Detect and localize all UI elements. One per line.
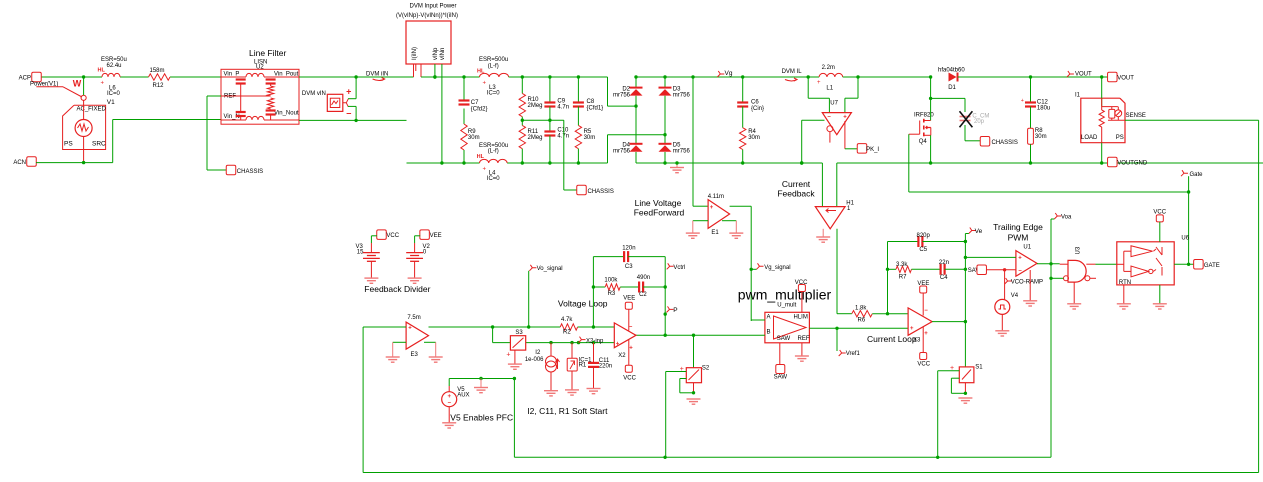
- svg-text:CHASSIS: CHASSIS: [237, 169, 263, 175]
- svg-text:Vg: Vg: [725, 70, 733, 77]
- svg-text:mr756: mr756: [673, 149, 691, 155]
- svg-text:{Cfd1}: {Cfd1}: [587, 105, 604, 111]
- svg-text:C6: C6: [751, 100, 759, 106]
- svg-text:1e-006: 1e-006: [525, 357, 544, 363]
- svg-text:vINp: vINp: [433, 47, 439, 60]
- svg-text:IC=0: IC=0: [107, 91, 121, 97]
- svg-text:VCC: VCC: [917, 362, 930, 368]
- svg-text:+: +: [710, 205, 714, 211]
- svg-text:+: +: [616, 342, 620, 348]
- svg-text:SAW: SAW: [777, 336, 791, 342]
- svg-text:30m: 30m: [584, 135, 596, 141]
- svg-text:(L-f): (L-f): [488, 149, 499, 155]
- svg-text:HL: HL: [477, 69, 485, 75]
- svg-text:C2: C2: [639, 292, 647, 298]
- svg-text:DVM Input Power: DVM Input Power: [409, 4, 456, 10]
- svg-text:I2, C11, R1 Soft Start: I2, C11, R1 Soft Start: [527, 406, 608, 416]
- svg-text:4.11m: 4.11m: [708, 194, 724, 200]
- svg-text:+: +: [101, 81, 105, 87]
- svg-text:ACN: ACN: [13, 160, 26, 166]
- svg-text:CHASSIS: CHASSIS: [992, 140, 1018, 146]
- svg-text:IC=0: IC=0: [487, 91, 501, 97]
- svg-text:4.7n: 4.7n: [557, 105, 569, 111]
- svg-text:+: +: [924, 331, 928, 337]
- svg-text:ESR=500u: ESR=500u: [479, 57, 508, 63]
- svg-text:220n: 220n: [599, 364, 612, 370]
- svg-text:2Meg: 2Meg: [528, 103, 543, 109]
- svg-text:E1: E1: [711, 230, 719, 236]
- svg-text:V4: V4: [1011, 293, 1019, 299]
- svg-text:mr756: mr756: [613, 92, 631, 98]
- svg-text:R3: R3: [608, 291, 616, 297]
- svg-text:AUX: AUX: [457, 393, 469, 399]
- svg-text:(L-f): (L-f): [488, 63, 499, 69]
- svg-text:{Cfd2}: {Cfd2}: [471, 106, 488, 112]
- svg-text:C3: C3: [625, 264, 633, 270]
- svg-text:−: −: [827, 115, 831, 121]
- svg-text:P: P: [673, 307, 677, 314]
- svg-text:S1: S1: [975, 365, 983, 371]
- svg-text:(V(vINp)-V(vINn))*I(iIN): (V(vINp)-V(vINn))*I(iIN): [396, 13, 458, 19]
- svg-text:62.4u: 62.4u: [107, 63, 122, 69]
- svg-text:SAW: SAW: [774, 375, 788, 381]
- svg-text:+: +: [910, 326, 914, 332]
- svg-text:820p: 820p: [917, 233, 931, 239]
- svg-text:U1: U1: [1023, 245, 1031, 251]
- svg-text:100k: 100k: [604, 278, 618, 284]
- svg-text:2.2m: 2.2m: [822, 65, 835, 71]
- svg-text:C4: C4: [940, 275, 948, 281]
- svg-text:VCC: VCC: [386, 233, 399, 239]
- svg-text:Line Voltage: Line Voltage: [635, 198, 682, 208]
- svg-text:PS: PS: [1116, 135, 1124, 141]
- svg-text:DVM iIN: DVM iIN: [366, 71, 388, 77]
- svg-text:+: +: [483, 81, 487, 87]
- svg-text:0: 0: [423, 250, 427, 256]
- svg-text:X2-inp: X2-inp: [586, 339, 604, 345]
- svg-text:U6: U6: [1181, 236, 1189, 242]
- svg-text:CHASSIS: CHASSIS: [588, 189, 614, 195]
- svg-text:Vctrl: Vctrl: [673, 265, 685, 271]
- svg-text:X3: X3: [913, 338, 921, 344]
- svg-text:GATE: GATE: [1204, 263, 1220, 269]
- svg-text:D1: D1: [948, 85, 956, 91]
- svg-text:mr756: mr756: [613, 149, 631, 155]
- svg-text:−: −: [1018, 269, 1022, 275]
- svg-text:Vin_Nout: Vin_Nout: [274, 111, 299, 117]
- svg-text:REF: REF: [798, 336, 810, 342]
- svg-text:AC_FIXED: AC_FIXED: [77, 107, 107, 113]
- svg-text:C5: C5: [919, 247, 927, 253]
- svg-text:+: +: [447, 394, 451, 400]
- svg-text:C7: C7: [471, 100, 479, 106]
- svg-text:−: −: [447, 401, 451, 407]
- svg-text:VCC: VCC: [623, 376, 636, 382]
- svg-text:S3: S3: [515, 330, 523, 336]
- svg-text:4.7n: 4.7n: [557, 134, 569, 140]
- svg-text:Ve: Ve: [975, 228, 983, 235]
- svg-text:hfa04tb60: hfa04tb60: [938, 68, 965, 74]
- svg-text:Current: Current: [782, 179, 811, 189]
- svg-text:I(iIN): I(iIN): [412, 47, 418, 60]
- svg-text:S2: S2: [702, 366, 710, 372]
- svg-text:R12: R12: [153, 83, 165, 89]
- svg-text:180u: 180u: [1037, 105, 1050, 111]
- svg-text:+: +: [629, 346, 633, 352]
- svg-text:vINn: vINn: [440, 48, 446, 60]
- svg-text:X2: X2: [618, 353, 626, 359]
- svg-text:W: W: [73, 79, 82, 89]
- svg-text:+: +: [346, 87, 351, 97]
- svg-text:−: −: [924, 308, 928, 314]
- svg-text:Current Loop: Current Loop: [867, 334, 917, 344]
- svg-text:1.8k: 1.8k: [855, 306, 867, 312]
- svg-text:B: B: [767, 330, 771, 336]
- svg-text:FeedForward: FeedForward: [634, 208, 685, 218]
- svg-text:mr756: mr756: [673, 92, 691, 98]
- svg-text:U3: U3: [1076, 246, 1082, 254]
- svg-text:V5 Enables PFC: V5 Enables PFC: [450, 413, 513, 423]
- svg-text:R1: R1: [579, 363, 587, 369]
- svg-text:A: A: [767, 315, 771, 321]
- svg-text:IRF820: IRF820: [914, 113, 934, 119]
- svg-text:{Cin}: {Cin}: [751, 106, 764, 112]
- svg-text:DVM vIN: DVM vIN: [302, 91, 326, 97]
- svg-text:VOUTGND: VOUTGND: [1117, 161, 1148, 167]
- svg-text:+: +: [506, 352, 510, 359]
- svg-text:Line Filter: Line Filter: [249, 48, 286, 58]
- svg-text:pwm_multiplier: pwm_multiplier: [738, 287, 832, 303]
- svg-text:SRC: SRC: [92, 141, 106, 148]
- svg-text:30m: 30m: [468, 135, 480, 141]
- svg-text:PK_I: PK_I: [866, 147, 879, 153]
- svg-text:VCO-RAMP: VCO-RAMP: [1011, 280, 1043, 286]
- svg-text:7.5m: 7.5m: [407, 315, 420, 321]
- svg-text:158m: 158m: [150, 68, 165, 74]
- svg-text:22n: 22n: [939, 260, 949, 266]
- svg-text:+: +: [1018, 256, 1022, 262]
- svg-text:VEE: VEE: [623, 296, 635, 302]
- svg-text:SENSE: SENSE: [1126, 113, 1146, 119]
- svg-text:Trailing Edge: Trailing Edge: [993, 222, 1043, 232]
- svg-text:120n: 120n: [622, 246, 635, 252]
- svg-text:+: +: [817, 80, 821, 86]
- svg-text:Voltage Loop: Voltage Loop: [558, 299, 608, 309]
- svg-text:R6: R6: [858, 318, 866, 324]
- svg-text:L1: L1: [826, 86, 833, 92]
- svg-text:E3: E3: [411, 352, 419, 358]
- svg-text:R7: R7: [899, 275, 907, 281]
- svg-text:4.7k: 4.7k: [561, 317, 573, 323]
- svg-text:VOUT: VOUT: [1075, 72, 1092, 78]
- svg-text:3.3k: 3.3k: [896, 262, 908, 268]
- svg-text:U7: U7: [830, 100, 838, 106]
- svg-text:Feedback: Feedback: [777, 189, 815, 199]
- svg-text:Vo_signal: Vo_signal: [537, 266, 563, 272]
- svg-text:IC=0: IC=0: [487, 176, 501, 182]
- svg-text:HL: HL: [477, 154, 485, 160]
- svg-text:−: −: [346, 109, 351, 119]
- svg-text:I1: I1: [1075, 93, 1081, 99]
- svg-text:U_mult: U_mult: [777, 303, 796, 309]
- svg-text:VOUT: VOUT: [1117, 76, 1134, 82]
- svg-text:R2: R2: [563, 330, 571, 336]
- svg-text:30m: 30m: [1035, 134, 1047, 140]
- svg-text:HL: HL: [98, 68, 106, 74]
- svg-text:Vg_signal: Vg_signal: [764, 265, 790, 271]
- svg-text:+: +: [843, 115, 847, 121]
- svg-text:2Meg: 2Meg: [528, 135, 543, 141]
- svg-text:Voa: Voa: [1061, 215, 1072, 221]
- svg-text:C8: C8: [587, 99, 595, 105]
- svg-text:490n: 490n: [637, 275, 650, 281]
- svg-text:+: +: [1021, 98, 1024, 104]
- svg-text:Gate: Gate: [1190, 172, 1204, 178]
- svg-text:RTN: RTN: [1119, 280, 1131, 286]
- svg-text:PWM: PWM: [1008, 233, 1029, 243]
- svg-text:I2: I2: [535, 350, 541, 356]
- svg-text:1: 1: [847, 206, 851, 212]
- svg-text:+: +: [408, 326, 412, 332]
- svg-text:30m: 30m: [748, 135, 760, 141]
- svg-text:Feedback Divider: Feedback Divider: [364, 284, 430, 294]
- svg-text:VEE: VEE: [430, 233, 442, 239]
- svg-text:Q4: Q4: [919, 139, 928, 145]
- svg-text:Vref1: Vref1: [846, 351, 861, 357]
- svg-text:PS: PS: [64, 141, 73, 148]
- svg-text:V1: V1: [107, 99, 115, 106]
- svg-text:+: +: [483, 167, 487, 173]
- svg-text:DVM IL: DVM IL: [782, 69, 803, 75]
- svg-text:−: −: [629, 325, 633, 331]
- svg-text:LOAD: LOAD: [1081, 135, 1098, 141]
- svg-text:HLIM: HLIM: [794, 315, 808, 321]
- svg-text:20p: 20p: [974, 119, 985, 125]
